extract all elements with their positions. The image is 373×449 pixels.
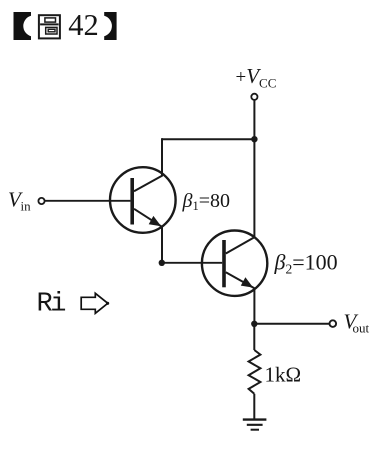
wire Q2 emitter vertical <box>253 288 255 324</box>
title bracket 【 <box>14 12 32 40</box>
svg-text:42: 42 <box>68 8 99 42</box>
transistor Q1 <box>110 167 176 233</box>
input terminal Vin <box>38 198 44 204</box>
svg-text:β2=100: β2=100 <box>274 250 338 277</box>
transistor Q2 <box>202 231 267 296</box>
node junction dot top <box>251 136 257 142</box>
svg-text:β1=80: β1=80 <box>182 190 231 213</box>
node Vout junction dot <box>251 321 257 327</box>
supply terminal <box>251 94 257 100</box>
ground <box>243 420 267 430</box>
wire top horizontal <box>162 138 254 140</box>
wire Q1 emitter to Q2 base junction <box>161 227 163 263</box>
wire VCC vertical <box>253 100 255 237</box>
svg-text:out: out <box>353 321 370 336</box>
svg-text:1kΩ: 1kΩ <box>265 363 302 387</box>
resistor R1 1k <box>249 350 261 394</box>
svg-text:in: in <box>21 199 32 214</box>
svg-text:Ri: Ri <box>37 290 66 320</box>
arrow tip dot <box>106 302 109 305</box>
title character 圖 <box>39 15 60 38</box>
wire node to resistor <box>253 324 255 350</box>
wire resistor to ground <box>253 394 255 420</box>
wire Q2 base horizontal <box>162 262 222 264</box>
wire Vout horizontal <box>254 323 329 325</box>
wire Q1 collector vertical <box>161 138 163 176</box>
output terminal Vout <box>330 320 337 327</box>
title bracket 】 <box>104 12 116 40</box>
hollow arrow <box>81 293 108 313</box>
junction dot emitter/base <box>159 260 165 266</box>
wire Q1 base <box>45 200 131 202</box>
svg-text:+VCC: +VCC <box>236 64 277 91</box>
